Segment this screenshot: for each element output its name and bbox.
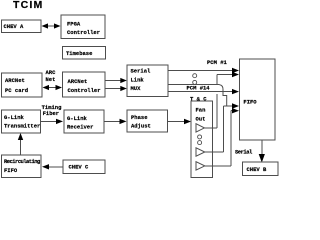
box CHEV A	[2, 20, 42, 33]
svg-text:Serial: Serial	[235, 148, 253, 155]
svg-text:Fiber: Fiber	[43, 110, 60, 117]
svg-text:FPGA: FPGA	[67, 21, 81, 28]
wire G-Link Receiver to Phase Adjust	[104, 119, 126, 124]
wire CHEV A to FPGA Controller bidirectional	[42, 23, 61, 28]
svg-text:CHEV C: CHEV C	[69, 164, 90, 171]
svg-text:Receiver: Receiver	[67, 124, 93, 131]
box CHEV C	[63, 160, 105, 174]
svg-text:Adjust: Adjust	[131, 122, 151, 129]
svg-text:Link: Link	[131, 76, 145, 83]
wire CHEV C to Recirculating FIFO	[42, 164, 63, 169]
wire PCM #1 from MUX to FIFO	[168, 68, 239, 73]
box G-Link Transmitter	[2, 110, 41, 133]
node dots in fan out	[198, 135, 202, 145]
buffer triangle 2 in fan out	[196, 148, 205, 156]
svg-text:Fan: Fan	[196, 106, 206, 113]
box CHEV B	[243, 162, 279, 176]
wire fan out buffer 1 riser	[204, 94, 217, 128]
wire FIFO down to CHEV B serial	[259, 140, 265, 163]
box Serial Link MUX	[127, 65, 168, 96]
svg-text:Serial: Serial	[131, 68, 152, 75]
label ARC Net	[46, 69, 57, 83]
buffer triangle 3 in fan out	[196, 162, 205, 170]
box FIFO	[240, 59, 276, 140]
box Fan Out	[191, 101, 213, 178]
svg-text:G-Link: G-Link	[4, 114, 25, 121]
svg-text:Transmitter: Transmitter	[4, 123, 40, 130]
svg-text:G-Link: G-Link	[67, 115, 88, 122]
box FPGA Controller U-FPGA	[61, 15, 105, 39]
buffer triangle 1 in fan out	[196, 124, 204, 132]
wire Recirculating FIFO up to G-Link Transmitter	[18, 133, 23, 155]
wire Phase Adjust to Fan Out	[167, 119, 191, 124]
wire fan out buffer 3 riser to FIFO	[205, 108, 239, 166]
svg-text:Controller: Controller	[68, 87, 101, 94]
svg-text:CHEV A: CHEV A	[4, 23, 25, 30]
box Recirculating FIFO	[2, 155, 42, 177]
svg-text:Timebase: Timebase	[66, 50, 93, 57]
svg-text:Controller: Controller	[67, 29, 100, 36]
wire ARCNet Controller to Serial Link MUX lower	[105, 86, 127, 91]
box Phase Adjust	[127, 110, 168, 132]
wire ARCNet PC card to ARCNet Controller bidirectional	[43, 85, 63, 90]
wire fan out buffer 2 riser to FIFO	[205, 103, 239, 152]
svg-text:PCM #1: PCM #1	[207, 59, 228, 66]
wire ARCNet Controller to Serial Link MUX upper	[105, 78, 127, 83]
svg-text:ARCNet: ARCNet	[68, 78, 88, 85]
svg-text:ARCNet: ARCNet	[5, 77, 25, 84]
box ARCNet PC card	[2, 73, 43, 97]
box G-Link Receiver	[64, 110, 104, 133]
svg-text:FIFO: FIFO	[4, 167, 18, 174]
svg-text:Net: Net	[46, 76, 56, 83]
box ARCNet Controller	[63, 72, 106, 97]
svg-text:TCIM: TCIM	[13, 0, 43, 11]
label Timing Fiber	[42, 104, 62, 117]
svg-text:FIFO: FIFO	[243, 99, 257, 106]
svg-text:MUX: MUX	[131, 85, 142, 92]
wire G-Link Transmitter to G-Link Receiver	[41, 119, 64, 124]
box Timebase	[63, 47, 106, 59]
svg-text:Phase: Phase	[131, 114, 148, 121]
wire PCM #14 from MUX with riser to FIFO	[168, 72, 239, 106]
node dots between PCM channels	[193, 74, 197, 85]
svg-text:ARC: ARC	[46, 69, 57, 76]
svg-text:CHEV B: CHEV B	[247, 166, 268, 173]
svg-text:PC card: PC card	[5, 87, 28, 94]
svg-text:Recirculating: Recirculating	[4, 158, 40, 165]
wire T and C from MUX to FIFO	[168, 89, 239, 94]
svg-text:Out: Out	[196, 116, 206, 123]
svg-text:PCM #14: PCM #14	[187, 84, 211, 91]
